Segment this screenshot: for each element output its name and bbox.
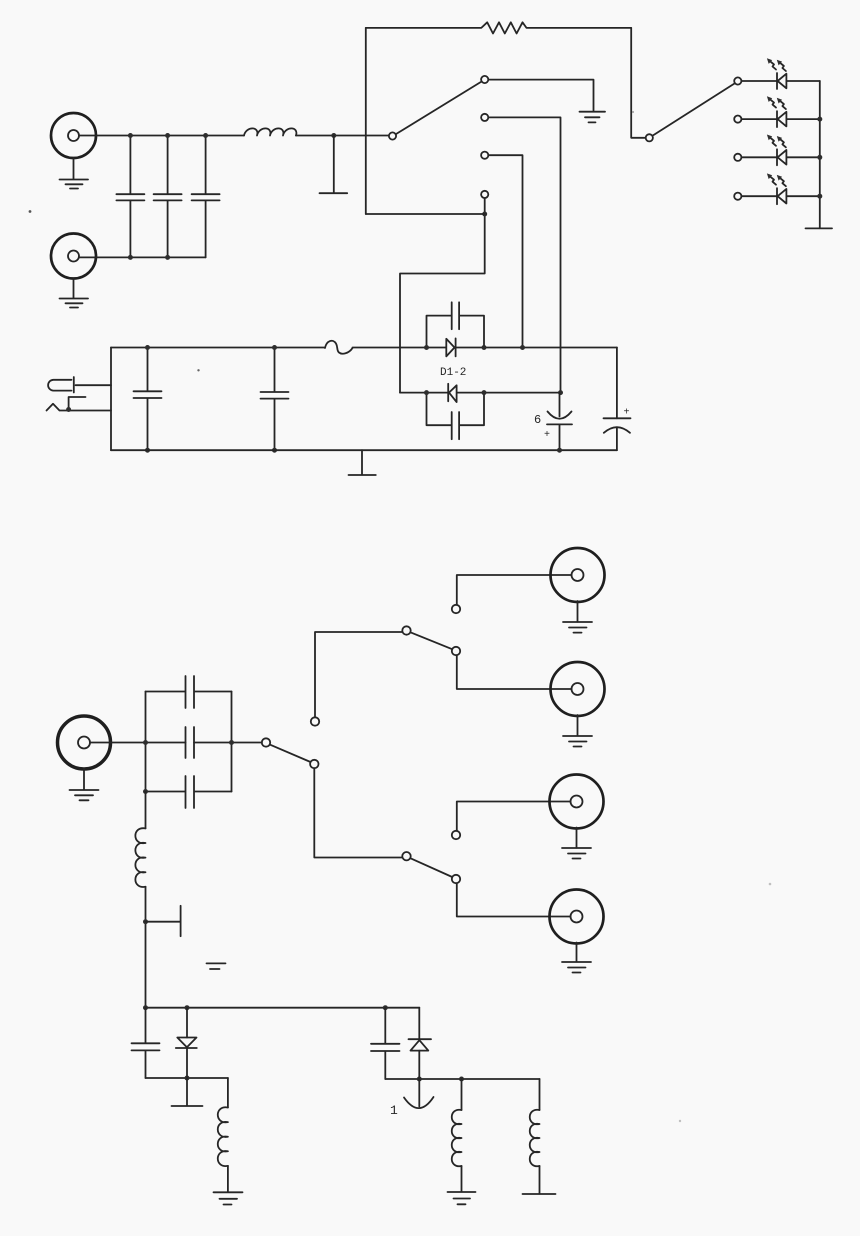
wire resistor to SW2 [631, 28, 645, 138]
node dots rail [143, 1005, 148, 1010]
bank node dots [143, 740, 148, 745]
ground G9 [562, 828, 591, 859]
switch SW3 arm [270, 745, 311, 762]
node dots C5 [272, 345, 277, 350]
wire contact-d down and left [400, 199, 485, 393]
capacitor C1 [116, 136, 144, 258]
node dot [185, 1076, 190, 1081]
ground G7 [563, 601, 592, 633]
LED D7 [742, 135, 820, 166]
inductor L1 [244, 128, 296, 135]
contact E2 [734, 116, 741, 123]
wire left riser x365.8 [365, 28, 367, 214]
node dot C3 [203, 133, 208, 138]
stub TP1 [320, 133, 348, 193]
connector J2 (BNC left) [51, 234, 96, 279]
connector J4 (BNC) [58, 716, 111, 769]
switch SW1 contact d [481, 191, 488, 198]
bank right edge [231, 692, 233, 792]
switch SW4 arm [410, 632, 452, 649]
capacitor E2 electrolytic [604, 348, 631, 451]
node dot E1 [557, 448, 562, 453]
ground G10 [562, 943, 591, 973]
connector J5 (BNC) [551, 548, 605, 602]
wire contact-a to ground [489, 80, 594, 111]
connector J6 (BNC) [551, 662, 605, 716]
ground G3 [580, 112, 606, 123]
LED D5 [742, 58, 820, 89]
diode D3 [176, 1008, 197, 1106]
switch SW4 pole [402, 626, 410, 634]
wire J1 to switch SW1 [79, 135, 388, 137]
trimmer arc [404, 1097, 434, 1108]
switch SW1 contact c [481, 152, 488, 159]
wire SW3 up-branch [315, 632, 402, 717]
node dots D2 row [424, 390, 429, 395]
inductor L3 [218, 1078, 228, 1192]
stub TP2 [143, 906, 181, 936]
wire return y214 [366, 213, 485, 215]
connector J8 (BNC) [550, 890, 604, 944]
diode D4 [409, 1008, 432, 1107]
paper specks [29, 210, 32, 213]
resistor R1 [366, 22, 631, 33]
connector J3 power jack pin [48, 377, 111, 393]
wire power box left edge [110, 348, 112, 451]
connector J3 sleeve [47, 397, 112, 412]
switch SW2 arm [653, 84, 734, 136]
svg-text:D1-2: D1-2 [440, 367, 466, 379]
capacitor C5 [261, 348, 289, 451]
ground G1 [60, 158, 89, 189]
switch SW1 arm [396, 82, 481, 134]
switch SW2 pole [646, 134, 653, 141]
capacitor E1 electrolytic [534, 393, 572, 451]
connector J7 (BNC) [550, 775, 604, 829]
wire to J7 [457, 802, 571, 831]
inductor L5 [530, 1079, 540, 1194]
wire J4 to switch [90, 742, 262, 744]
wire SW3 down-branch [314, 768, 402, 857]
wire main rail bottom [146, 1007, 420, 1009]
ground G5 [349, 450, 376, 475]
svg-text:6: 6 [534, 413, 541, 427]
wire contact-c down to D1 row [489, 155, 523, 347]
wire to J8 [457, 883, 571, 916]
switch SW3 pole [262, 738, 270, 746]
fuse F1 [325, 341, 353, 354]
switch SW5 contact b [452, 875, 460, 883]
switch SW4 contact a [452, 605, 460, 613]
capacitor bank C12 bottom [146, 776, 232, 808]
switch SW5 pole [402, 852, 410, 860]
switch SW3 contact down [310, 760, 318, 768]
ground G12 [214, 1192, 243, 1204]
ground G4 [806, 227, 833, 229]
wire to J5 [457, 575, 572, 605]
switch SW3 contact up [311, 717, 319, 725]
marks dashes [207, 963, 226, 969]
diode D1 with parallel capacitor C8 [427, 302, 617, 356]
wire left low rail [146, 1077, 228, 1079]
ground G6 [70, 769, 99, 801]
capacitor C3 [192, 136, 220, 258]
LED D8 [742, 173, 820, 204]
node dots C1 [128, 133, 133, 138]
capacitor C7 [371, 1008, 400, 1079]
capacitor C6 [132, 1008, 160, 1078]
inductor L2 [135, 792, 145, 1008]
contact E1 [734, 77, 741, 84]
inductor L4 [452, 1079, 462, 1192]
connector J1 (BNC top-left) [51, 113, 96, 158]
switch SW4 contact b [452, 647, 460, 655]
ground G14 [523, 1193, 556, 1195]
capacitor bank C11 middle [186, 727, 195, 758]
svg-text:+: + [544, 430, 550, 441]
wire bottom rail [111, 449, 617, 451]
contact E3 [734, 154, 741, 161]
switch SW1 contact b [481, 114, 488, 121]
switch SW5 contact a [452, 831, 460, 839]
ground G13 [448, 1192, 476, 1204]
svg-text:+: + [624, 408, 630, 419]
node dots C4 [145, 345, 150, 350]
capacitor bank C10 top [146, 676, 232, 708]
bus node dots [817, 117, 822, 122]
ground G2 [60, 279, 89, 308]
switch SW5 arm [410, 858, 452, 877]
node dot [482, 212, 487, 217]
wire right low rail [385, 1078, 539, 1080]
node dots D1 row [424, 345, 429, 350]
bank left edge [145, 692, 147, 792]
capacitor C2 [154, 136, 182, 258]
capacitor C4 [134, 348, 162, 451]
wire to J6 [457, 655, 572, 689]
contact E4 [734, 193, 741, 200]
LED bus wire [819, 81, 821, 228]
diode D2 with parallel capacitor C9 [400, 384, 561, 439]
wire contact-b down to D2 row [489, 117, 561, 392]
ground G11 [172, 1105, 203, 1107]
node dots C2 [165, 133, 170, 138]
ground G8 [563, 715, 592, 747]
switch SW1 contact a [481, 76, 488, 83]
LED D6 [742, 96, 820, 127]
wire top rail [111, 347, 325, 349]
wire top rail cont [353, 347, 427, 349]
switch SW1 pole [389, 132, 396, 139]
svg-text:1: 1 [390, 1103, 398, 1118]
node dots [417, 1077, 422, 1082]
wire J2 bottom bus [79, 256, 206, 258]
